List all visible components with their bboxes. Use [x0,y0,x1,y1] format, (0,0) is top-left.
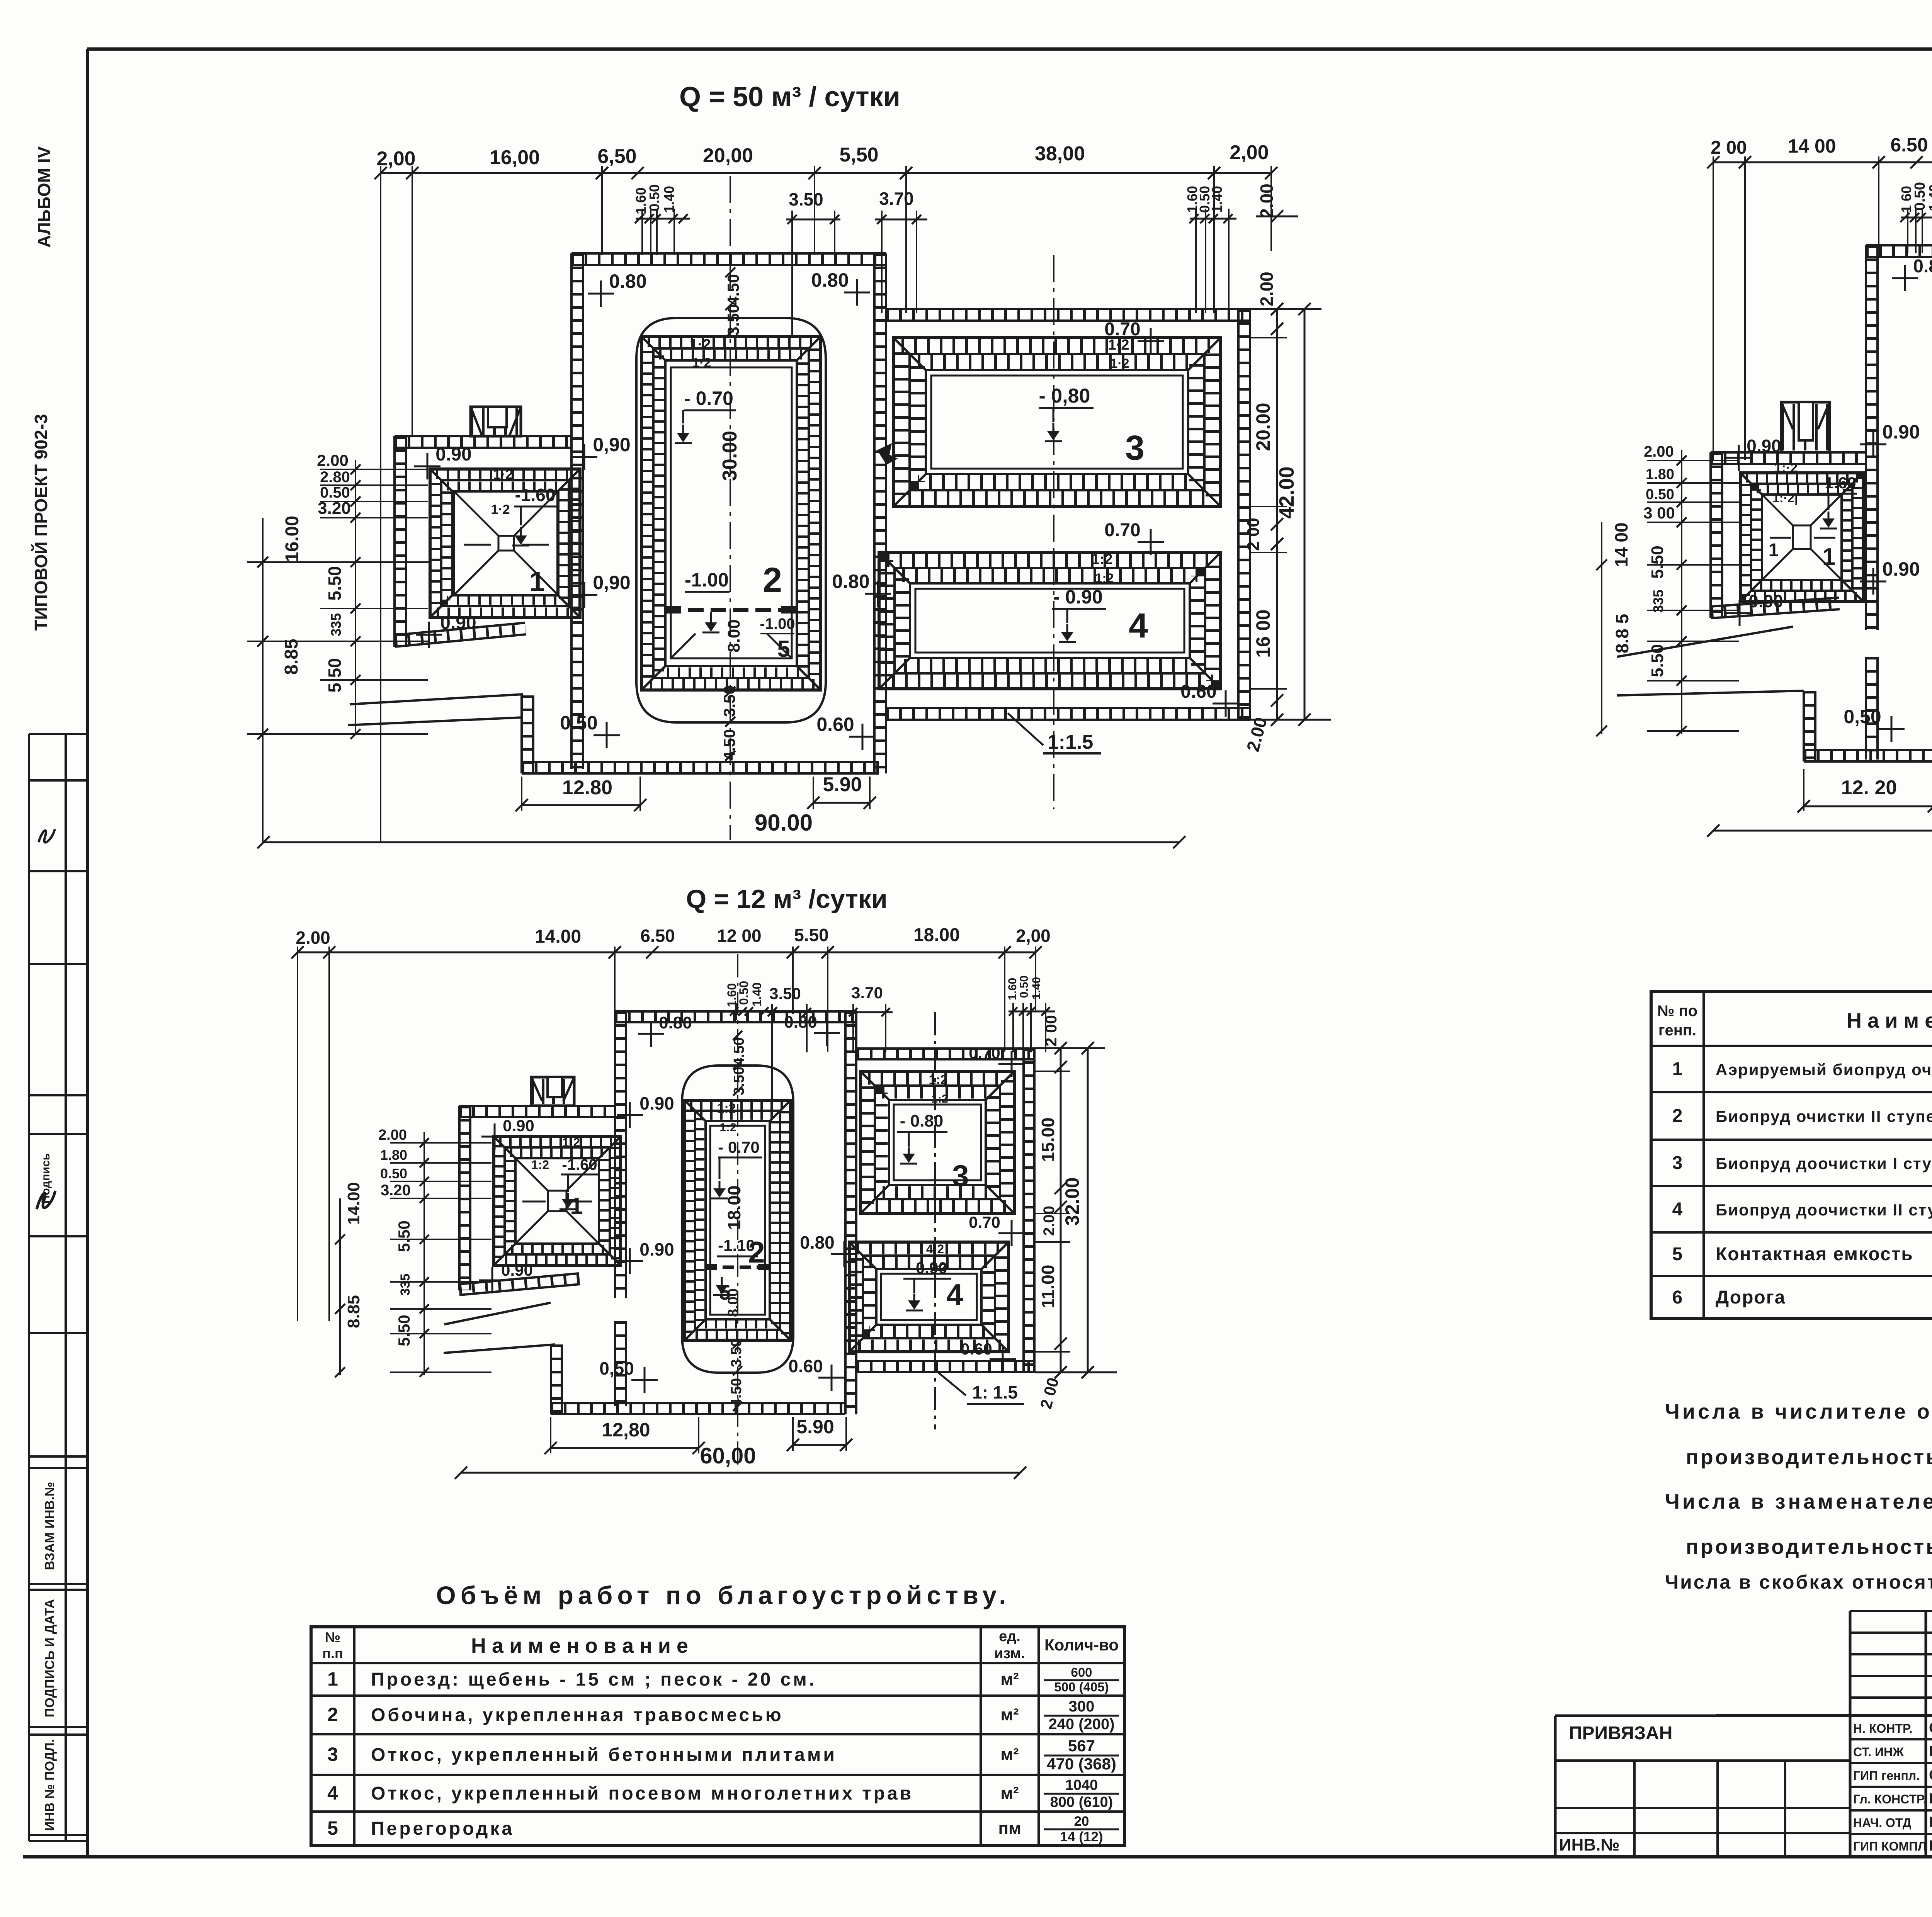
svg-text:3: 3 [952,1159,969,1193]
svg-text:1.80: 1.80 [380,1147,407,1163]
svg-text:14 00: 14 00 [1787,135,1836,157]
svg-text:1·2: 1·2 [692,355,711,370]
plan25 pond 1 embankment ring [1740,473,1863,602]
plan12 pond 1 water edge [515,1158,599,1244]
svg-text:1: 1 [327,1668,338,1690]
svg-text:5: 5 [327,1817,338,1839]
svg-text:Порембская: Порембская [1929,1744,1932,1760]
svg-text:5.90: 5.90 [823,773,862,796]
svg-text:12.80: 12.80 [562,777,612,799]
svg-text:0.50: 0.50 [1646,486,1674,503]
svg-text:0.80: 0.80 [800,1232,835,1253]
svg-text:1:·2: 1:·2 [1774,461,1798,475]
plan12 site: strip left edge [614,1011,616,1298]
plan12 slope note 1:1.5 [937,1371,966,1395]
svg-text:5.50: 5.50 [794,925,829,945]
svg-text:2: 2 [748,1235,765,1269]
plan12 right extension stubs [1035,1071,1070,1072]
svg-text:5.50: 5.50 [325,566,345,601]
svg-text:0.50: 0.50 [737,981,751,1005]
svg-text:15.00: 15.00 [1038,1117,1058,1162]
svg-text:Ольшанникова: Ольшанникова [1929,1720,1932,1736]
plan12 site: foot bottom edge [551,1413,845,1415]
plan50 site: block bottom edge [886,719,1250,721]
svg-text:14 00: 14 00 [1611,522,1631,567]
svg-text:0.80: 0.80 [1913,256,1932,277]
svg-text:0.90: 0.90 [501,1261,533,1279]
svg-text:НАЧ. ОТД: НАЧ. ОТД [1853,1816,1912,1830]
svg-text:20,00: 20,00 [703,144,753,167]
svg-text:335: 335 [398,1274,413,1296]
svg-text:8.8 5: 8.8 5 [1612,614,1632,653]
plan25 site: arm top edge [1711,463,1866,465]
svg-text:600: 600 [1071,1665,1092,1679]
svg-text:№ по: № по [1657,1003,1697,1020]
svg-text:3.50: 3.50 [769,984,801,1003]
svg-text:20: 20 [1074,1814,1089,1829]
svg-text:2,00: 2,00 [1016,926,1051,946]
svg-text:335: 335 [328,613,344,636]
plan50 pond 4 embankment ring [879,552,1221,689]
svg-text:0.80: 0.80 [811,269,849,291]
svg-text:ГИП КОМПЛ: ГИП КОМПЛ [1853,1839,1927,1853]
svg-text:3: 3 [1125,429,1145,467]
title block: revision grid [1850,1610,1932,1612]
svg-text:16,00: 16,00 [490,146,540,169]
plan50 pond 2/5 partition [666,608,797,612]
svg-text:м²: м² [1000,1705,1019,1724]
plan25 bottom dims [1804,806,1932,807]
svg-text:4: 4 [1672,1199,1683,1220]
svg-text:0.50: 0.50 [380,1166,407,1181]
title block: left part [1554,1716,1557,1857]
svg-text:ИНВ.№: ИНВ.№ [1559,1835,1619,1854]
svg-text:0.80: 0.80 [609,270,646,292]
svg-text:2.00: 2.00 [1041,1206,1058,1236]
plan50 site: strip right edge [873,253,876,773]
svg-text:0.90: 0.90 [440,613,476,633]
svg-text:0.80: 0.80 [832,571,869,592]
svg-text:Q = 50 м³ / сутки: Q = 50 м³ / сутки [679,82,900,112]
svg-text:0.90: 0.90 [435,444,471,465]
svg-text:-1.00: -1.00 [760,615,795,632]
plan25 pond 1 bottom diagonals [1762,495,1793,525]
svg-text:ГИП генпл.: ГИП генпл. [1853,1769,1920,1783]
svg-text:1:2: 1:2 [931,1093,948,1105]
svg-text:2.00: 2.00 [296,928,330,948]
plan12 left dim lines [423,1132,425,1375]
svg-text:Числа в скобках относятся к: Числа в скобках относятся к сооружениям … [1665,1571,1932,1593]
svg-text:5.50: 5.50 [395,1315,413,1346]
svg-text:1:2: 1:2 [717,1101,736,1116]
plan50 pond 3 embankment ring [893,338,1221,506]
svg-text:изм.: изм. [994,1645,1025,1662]
svg-text:-1.60: -1.60 [1819,474,1856,492]
svg-text:Н а и м е н о в а н и е: Н а и м е н о в а н и е [1847,1009,1932,1032]
plan50 pond 5 inner corner diagonals [671,634,696,658]
plan50 slope note 1:1.5 [1008,713,1043,745]
plan12 overall right dim 32.00 [1087,1048,1089,1372]
plan12 site: block top edge [857,1058,1035,1060]
svg-text:1·2: 1·2 [493,466,513,482]
svg-text:4: 4 [946,1278,963,1312]
svg-text:42.00: 42.00 [1275,466,1298,518]
svg-text:0.50: 0.50 [646,184,662,211]
plan50 site: arm top edge [395,447,571,449]
svg-text:800 (610): 800 (610) [1050,1794,1113,1810]
svg-text:3.50: 3.50 [720,685,738,717]
svg-text:1040: 1040 [1065,1777,1098,1793]
svg-text:1:2: 1:2 [1095,571,1114,586]
plan50 pond 2 water edge lines [671,367,792,658]
plan50 secondary dims left group [636,218,690,220]
plan25 access road [1617,627,1793,657]
plan50 centre axes [730,176,731,840]
svg-text:38,00: 38,00 [1035,143,1085,165]
plan25 site: foot left edge [1803,691,1805,761]
plan50 top dimension chain [381,172,1271,174]
svg-text:0.50: 0.50 [560,712,597,734]
svg-text:Откос, укрепленный бетонным: Откос, укрепленный бетонными плитами [371,1745,837,1765]
svg-text:3: 3 [327,1744,338,1765]
svg-text:5,50: 5,50 [839,144,878,166]
plan12 site: strip left lower edge [614,1321,616,1406]
svg-text:6: 6 [1672,1287,1683,1308]
svg-text:11.00: 11.00 [1038,1265,1058,1309]
plan12 centre axes [737,954,738,1470]
svg-text:4: 4 [327,1782,338,1804]
plan12 site: foot left edge [550,1344,552,1414]
svg-text:- 0.90: - 0.90 [1053,586,1103,608]
svg-text:ед.: ед. [999,1628,1020,1645]
svg-text:1: 1 [1822,544,1835,570]
svg-text:300: 300 [1069,1698,1095,1715]
plan25 top extension lines [1713,156,1714,460]
svg-text:3: 3 [1672,1153,1683,1173]
plan25 site: strip top edge [1866,256,1932,258]
svg-text:14.00: 14.00 [344,1182,363,1225]
svg-text:14 (12): 14 (12) [1060,1829,1103,1844]
svg-text:2: 2 [1672,1106,1683,1126]
svg-text:1: 1.5: 1: 1.5 [972,1382,1018,1402]
svg-text:3.50: 3.50 [728,1339,745,1367]
plan50 site: strip left edge [570,253,573,769]
plan12 top dimension chain [298,952,1036,953]
svg-text:0.90: 0.90 [1882,558,1920,580]
plan12 site: strip top edge [615,1021,857,1023]
plan12 secondary dims [730,1011,777,1013]
svg-text:0.60: 0.60 [961,1340,992,1358]
plan12 pond 3 embankment ring [861,1071,1014,1213]
svg-text:1:2: 1:2 [1092,551,1113,568]
plan12 bottom dims [551,1447,699,1449]
svg-text:5.50: 5.50 [1648,546,1667,579]
svg-text:2: 2 [327,1704,338,1725]
svg-text:Биопруд доочистки I ступени: Биопруд доочистки I ступени сестественно… [1716,1154,1932,1173]
sheet frame border [87,48,1932,51]
svg-text:Н а и м е н о в а н и е: Н а и м е н о в а н и е [471,1634,688,1657]
svg-text:-1.60: -1.60 [515,485,556,505]
svg-text:8.00: 8.00 [725,1288,742,1317]
svg-text:ПРОНИН: ПРОНИН [1929,1791,1932,1807]
svg-text:500 (405): 500 (405) [1054,1680,1109,1694]
svg-text:4.50: 4.50 [731,1037,747,1066]
plan50 pond 2 embankment ring [641,336,821,690]
svg-text:12 00: 12 00 [717,926,761,946]
plan50 access road [350,694,523,704]
svg-text:2 00: 2 00 [1711,138,1747,158]
svg-text:- 0,80: - 0,80 [1039,385,1090,407]
plan50 scan ink blot [877,443,898,465]
svg-text:0.50: 0.50 [1018,975,1031,998]
svg-text:3 00: 3 00 [1643,504,1675,522]
svg-text:0,90: 0,90 [593,572,630,593]
plan50 pond 3 water edge [931,376,1183,469]
svg-text:генп.: генп. [1658,1022,1696,1039]
plan50 site: arm left edge [393,436,396,647]
svg-text:0.90: 0.90 [503,1117,534,1135]
plan25 top dimension chain [1713,161,1932,163]
svg-text:18.00: 18.00 [913,925,960,945]
svg-text:16.00: 16.00 [282,516,303,562]
svg-text:18.00: 18.00 [724,1185,744,1230]
svg-text:ПРИВЯЗАН: ПРИВЯЗАН [1569,1723,1672,1744]
svg-text:м²: м² [1000,1670,1019,1689]
plan50 site: block top edge [886,319,1250,322]
svg-text:Биопруд очистки II ступени с: Биопруд очистки II ступени с естественно… [1716,1107,1932,1125]
svg-text:- 0.80: - 0.80 [900,1111,944,1130]
svg-text:Q = 12 м³ /сутки: Q = 12 м³ /сутки [686,884,887,914]
svg-text:ВЗАМ ИНВ.№: ВЗАМ ИНВ.№ [43,1482,57,1570]
svg-text:4.50: 4.50 [724,274,742,306]
plan50 overall right dim 42.00 [1304,309,1306,720]
plan50 left dim lines [355,460,356,734]
plan50 bottom dims [522,804,640,806]
svg-text:6.50: 6.50 [640,926,675,946]
title block: middle rows [1850,1738,1932,1740]
svg-text:-1.60: -1.60 [562,1156,597,1173]
plan25 site: arm bottom slanted edge [1711,609,1840,618]
svg-text:2.00: 2.00 [1257,272,1277,306]
plan12 site: arm top edge [459,1116,615,1118]
svg-text:2.80: 2.80 [320,469,350,486]
svg-text:4: 4 [1129,607,1148,645]
plan50 pond 1 bottom diagonals [454,491,498,536]
svg-text:1:2: 1:2 [929,1072,947,1087]
plan50 site: arm bottom slanted edge [395,634,526,647]
svg-text:1:·2|: 1:·2| [1772,491,1798,505]
plan50 pond 1 water edge [454,491,558,595]
svg-text:60,00: 60,00 [700,1443,756,1468]
plan25 site: strip left edge [1865,245,1867,630]
svg-text:КРАСАВИН: КРАСАВИН [1929,1814,1932,1830]
svg-text:5: 5 [777,636,790,662]
svg-text:335: 335 [1650,590,1666,613]
plan25 left dim lines [1681,450,1682,734]
svg-text:-1.00: -1.00 [685,569,729,591]
svg-text:0.90: 0.90 [1748,591,1783,611]
svg-text:90.00: 90.00 [755,810,813,836]
svg-text:1.40: 1.40 [1209,186,1225,213]
plan50 pond 4 water edge [915,589,1184,653]
svg-text:1: 1 [1769,540,1779,561]
svg-text:0,50: 0,50 [1844,706,1881,727]
plan12 pond 3 water edge [894,1105,981,1180]
svg-text:0.90: 0.90 [639,1093,674,1113]
svg-text:ИНВ № ПОДЛ.: ИНВ № ПОДЛ. [43,1739,57,1831]
svg-text:производительностью 25м³ /: производительностью 25м³ /сутки. [1686,1535,1932,1558]
svg-text:Н. КОНТР.: Н. КОНТР. [1853,1722,1912,1735]
plan12 site: block right edge [1022,1048,1025,1372]
svg-text:0.80: 0.80 [659,1013,692,1032]
svg-text:6.50: 6.50 [1890,134,1928,156]
svg-text:2,00: 2,00 [376,148,415,170]
plan12 pond 2/5 partition [706,1266,770,1269]
svg-text:0.60: 0.60 [816,714,854,735]
plan12 pond 2 embankment ring [685,1100,791,1340]
svg-text:1: 1 [529,566,545,597]
plan50 right dimension chain [1276,309,1278,720]
svg-text:1.60: 1.60 [1006,978,1019,1000]
svg-text:3.20: 3.20 [381,1182,411,1199]
svg-text:5.50: 5.50 [1648,644,1667,677]
svg-text:Обочина, укрепленная травос: Обочина, укрепленная травосмесью [371,1705,784,1725]
svg-text:3.70: 3.70 [879,189,914,209]
explication table grid [1651,991,1932,1319]
plan50 top extension lines [380,166,381,842]
svg-text:Объём работ по благоустрой: Объём работ по благоустройству. [436,1581,1010,1609]
svg-text:- 0.70: - 0.70 [684,387,733,409]
svg-text:0,90: 0,90 [593,434,630,455]
svg-text:производительностью 50 м³/с: производительностью 50 м³/сутки. [1686,1446,1932,1469]
plan25 site: strip left lower edge [1865,657,1867,760]
svg-text:Проезд: щебень - 15 см ;: Проезд: щебень - 15 см ; песок - 20 см. [371,1669,816,1690]
svg-text:БУДАЕВА: БУДАЕВА [1929,1838,1932,1854]
plan50 site: foot bottom edge [522,772,879,775]
plan50 right extension stubs [1250,337,1287,338]
plan12 right dimension chain [1060,1048,1062,1372]
svg-text:240 (200): 240 (200) [1048,1716,1114,1733]
svg-text:0.90: 0.90 [1747,436,1781,456]
left margin table [28,734,30,1841]
plan25 chimney inlet structure [1781,402,1830,452]
svg-text:Перегородка: Перегородка [371,1818,514,1839]
svg-text:СТ. ИНЖ: СТ. ИНЖ [1853,1745,1904,1759]
plan12 site: arm bottom slanted edge [459,1284,580,1295]
plan50 pond 1 embankment ring [430,469,580,617]
svg-text:5.90: 5.90 [796,1416,834,1438]
svg-text:пм: пм [998,1819,1021,1838]
svg-text:1.40: 1.40 [1926,184,1932,211]
svg-text:Контактная емкость: Контактная емкость [1716,1244,1913,1264]
svg-text:№: № [325,1629,340,1645]
svg-text:16 00: 16 00 [1252,609,1274,658]
svg-text:20.00: 20.00 [1252,403,1274,451]
svg-text:1.80: 1.80 [1646,466,1674,483]
svg-text:Числа в числителе отно: Числа в числителе относятся к сооружения… [1665,1400,1932,1423]
plan12 access road [444,1303,551,1324]
svg-text:3.50: 3.50 [789,189,823,209]
svg-text:1.40: 1.40 [750,982,764,1006]
svg-text:м²: м² [1000,1784,1019,1803]
svg-text:2,00: 2,00 [1230,141,1269,164]
svg-text:Ольшанникова: Ольшанникова [1929,1767,1932,1783]
svg-text:8.85: 8.85 [281,639,302,675]
svg-text:5 50: 5 50 [325,658,345,693]
svg-text:567: 567 [1068,1737,1095,1755]
svg-text:5: 5 [1672,1244,1683,1264]
plan50 chimney inlet structure [471,407,521,436]
svg-text:3.70: 3.70 [851,984,883,1002]
svg-text:2 00: 2 00 [1244,518,1263,551]
svg-text:1·2: 1·2 [562,1135,580,1149]
svg-text:1:2: 1:2 [719,1121,736,1134]
svg-text:1·2: 1·2 [491,502,510,517]
svg-text:1:2: 1:2 [531,1158,549,1172]
plan12 pond 2 water edge lines [710,1126,765,1315]
plan50 pond 2 crest outline (stadium) [636,318,826,722]
plan12 chimney inlet structure [531,1077,574,1106]
plan50 site: foot left edge [520,695,523,773]
svg-text:3.50: 3.50 [731,1067,747,1095]
svg-text:Гл. КОНСТР.: Гл. КОНСТР. [1853,1792,1926,1806]
svg-text:Дорога: Дорога [1716,1287,1786,1308]
plan50 site: block right edge [1237,309,1240,720]
svg-text:Аэрируемый биопруд очистки: Аэрируемый биопруд очистки I ступени [1716,1060,1932,1079]
plan25 site: arm left edge [1709,452,1712,618]
svg-text:0.70: 0.70 [1104,319,1140,340]
svg-text:0.90: 0.90 [639,1239,674,1259]
svg-text:АЛЬБОМ IV: АЛЬБОМ IV [34,146,54,248]
svg-text:32.00: 32.00 [1061,1177,1083,1225]
plan12 pond 4 embankment ring [849,1242,1009,1352]
svg-text:0.90: 0.90 [1882,421,1920,443]
svg-text:0,50: 0,50 [599,1358,634,1378]
svg-text:Биопруд доочистки II ступени: Биопруд доочистки II ступени с естествен… [1716,1201,1932,1219]
svg-text:п.п: п.п [322,1645,343,1661]
svg-text:0.70: 0.70 [969,1213,1000,1231]
svg-text:12. 20: 12. 20 [1841,777,1897,799]
plan25 pond 1 water edge [1762,495,1842,580]
svg-text:ПОДПИСЬ И ДАТА: ПОДПИСЬ И ДАТА [43,1599,57,1717]
svg-text:2.00: 2.00 [378,1127,407,1143]
svg-text:1·2: 1·2 [690,336,711,353]
plan12 site: arm left edge [458,1106,461,1290]
svg-text:0.70: 0.70 [1104,520,1140,540]
plan25 secondary dims [1901,217,1932,219]
svg-text:14.00: 14.00 [535,926,581,947]
svg-text:2 00: 2 00 [1042,1015,1060,1047]
svg-text:Числа в знаменателе отно: Числа в знаменателе относятся к сооружен… [1665,1490,1932,1513]
svg-text:8.00: 8.00 [724,619,743,653]
svg-text:0.80: 0.80 [784,1013,817,1032]
svg-text:1·2: 1·2 [1110,356,1129,371]
plan12 site: block bottom edge [857,1371,1035,1373]
svg-text:ТИПОВОЙ ПРОЕКТ 902-3: ТИПОВОЙ ПРОЕКТ 902-3 [31,414,51,631]
svg-text:0.50: 0.50 [1912,182,1928,211]
svg-text:Колич-во: Колич-во [1044,1636,1119,1654]
svg-text:2.00: 2.00 [1644,443,1674,460]
svg-text:0.60: 0.60 [1180,681,1216,702]
svg-text:470 (368): 470 (368) [1047,1755,1116,1773]
svg-text:12,80: 12,80 [602,1419,650,1441]
plan12 pond 4 water edge [881,1274,977,1320]
svg-text:- 0.70: - 0.70 [718,1138,759,1156]
plan25 site: foot bottom edge [1804,760,1932,763]
svg-text:м²: м² [1000,1745,1019,1764]
svg-text:1: 1 [570,1193,583,1219]
svg-text:2.00: 2.00 [317,451,349,469]
